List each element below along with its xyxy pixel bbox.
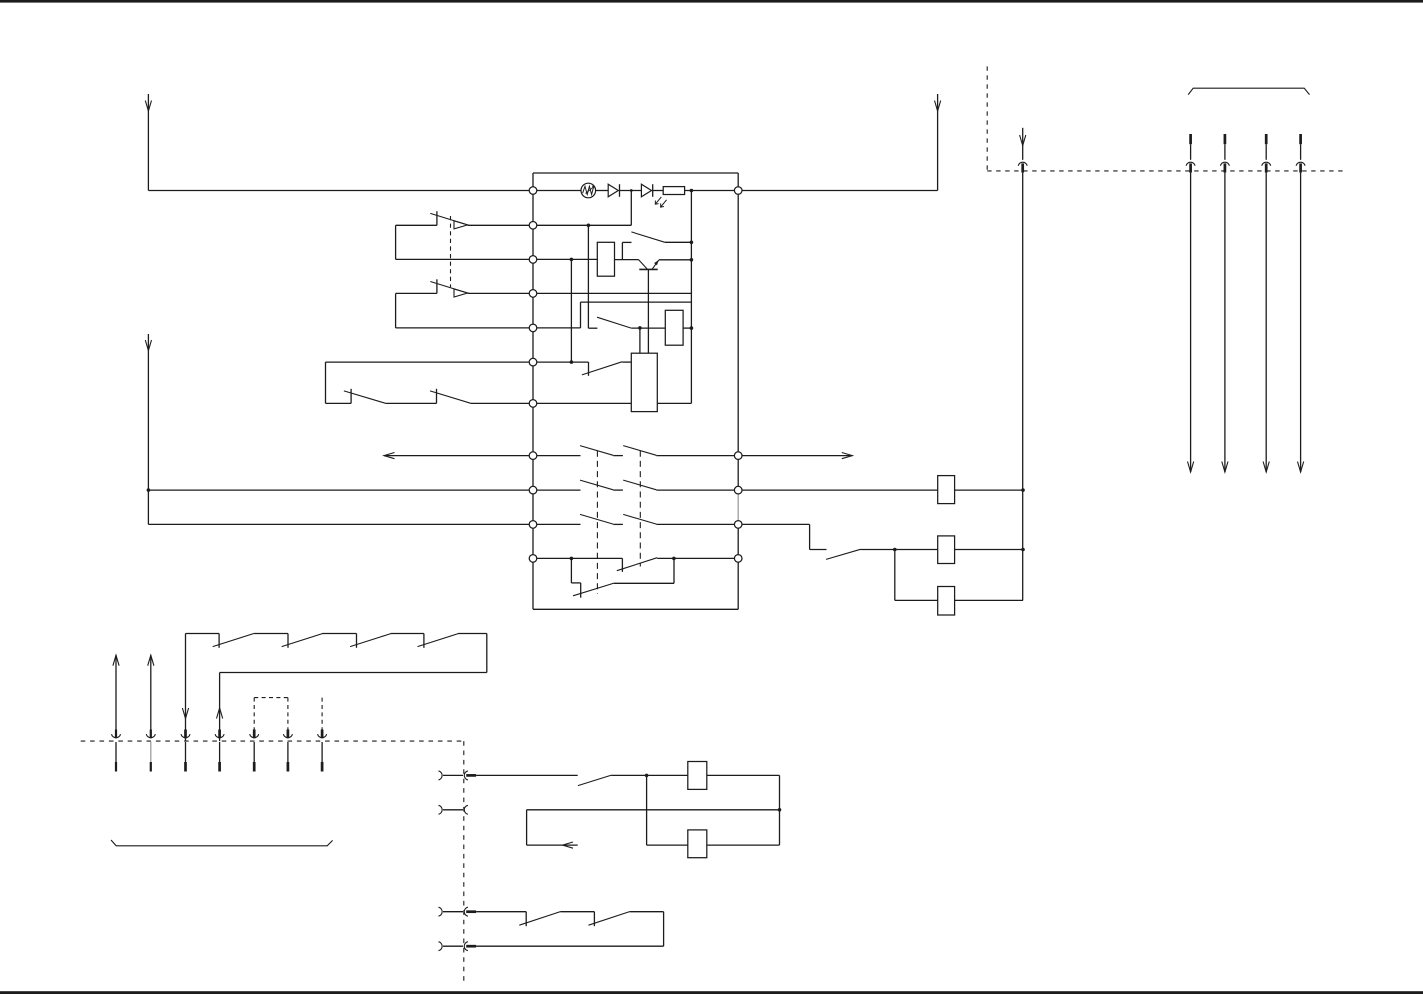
wire row11 a (533, 557, 622, 559)
wire x1023 upper with arrow (1022, 128, 1024, 160)
contact S2 direction triangle (454, 289, 468, 297)
wire row8 mid (613, 455, 623, 457)
wire x691 corner to coil K2 (657, 402, 691, 404)
wire x1023 vertical (1022, 173, 1024, 601)
contact row8-left blade (580, 446, 613, 456)
wire row7 right (533, 402, 631, 404)
wire feed-right horizontal (738, 190, 937, 192)
pin L1 (529, 187, 537, 195)
connector socket arc row775 left (439, 771, 443, 780)
junction node row5-x640 (638, 326, 642, 330)
contact row10-left blade (580, 514, 613, 524)
relay coil K4 (938, 587, 955, 616)
resistor R1 (663, 187, 684, 195)
contact S8 terminal stub (621, 558, 623, 572)
wire row9 left (148, 489, 533, 491)
wire row775 d (707, 774, 780, 776)
wire row5 b (631, 327, 665, 329)
border frame bottom bar (0, 991, 1423, 994)
wire S2 to pin L4 (468, 292, 533, 294)
linkage dashed right gang (639, 451, 641, 567)
transistor Q1 (639, 260, 648, 270)
wire row2 right (533, 224, 631, 226)
junction node row1-x631 (630, 189, 633, 192)
wire S1 to pin L2 (468, 224, 533, 226)
linkage dashed left gang (596, 451, 598, 594)
lamp LA1 (581, 183, 596, 198)
wire row549 a (861, 549, 938, 551)
wire row8 right (656, 455, 738, 457)
wire row810 corner vertical (526, 810, 528, 845)
wire row10 right (656, 523, 738, 525)
wire row810 main (527, 809, 780, 811)
junction node row5-x691 (690, 326, 694, 330)
pin R5 (734, 555, 742, 563)
wire row845 a (647, 844, 688, 846)
contact S8 blade (617, 558, 657, 571)
wire row946 main (476, 945, 663, 947)
wire row1 d (653, 190, 664, 192)
wire x646 vertical (646, 775, 648, 845)
wire row911 c (630, 911, 664, 913)
contact S6 terminal stub (350, 389, 352, 404)
connector socket arc row810 left (439, 805, 443, 814)
contact S6 blade (344, 391, 385, 403)
wire x631 vertical row1-row2 (630, 191, 632, 226)
wire chain left vertical (185, 634, 187, 742)
pin L10 (529, 521, 537, 529)
wire loop B left vertical (395, 293, 397, 328)
connector line LC2 with up arrow (gray tail) (150, 655, 152, 729)
arrow out row8 left (384, 455, 533, 457)
pin L7 (529, 400, 537, 408)
wire row10 right a (738, 523, 809, 525)
wire row9 stub (533, 489, 581, 491)
contact S4 blade (597, 317, 631, 328)
wire feed-right vertical with arrow (937, 94, 939, 191)
junction node row775-x646 (645, 774, 649, 778)
wire row5 left (396, 327, 533, 329)
wire S5 to coil K2 (622, 361, 631, 363)
bracket row5 bypass (580, 302, 582, 328)
connector line RC4 (1299, 134, 1302, 144)
contact S1 wire (396, 224, 437, 226)
wire row9 mid (613, 489, 623, 491)
contact chain-2 blade (282, 634, 323, 647)
wire staircase vertical (809, 524, 811, 549)
pin L9 (529, 486, 537, 494)
junction node x894 (893, 548, 897, 552)
connector line LC4 (218, 730, 221, 739)
contact chain-3 stub (356, 634, 358, 648)
wire S7 to pin L7 (470, 402, 533, 404)
connector socket arc row810 mid (464, 805, 468, 814)
connector socket arc x1023 (1018, 162, 1027, 166)
bracket K1 to contact (621, 242, 623, 259)
pin L6 (529, 358, 537, 366)
wire row810 stub (443, 809, 463, 811)
photo arrows at D2 (655, 197, 661, 204)
contact S9 blade (573, 583, 614, 596)
resistor R2 (665, 310, 683, 345)
wire row9 right b (955, 489, 1023, 491)
wire row911 a (476, 911, 526, 913)
wire chain top segments (186, 633, 220, 635)
relay coil K7 (688, 830, 707, 858)
wire row10 mid (613, 523, 623, 525)
wire row6 left (326, 361, 534, 363)
wire row8 stub (533, 455, 581, 457)
wire row845 tail with arrow (527, 844, 578, 846)
wire row9 right (656, 489, 738, 491)
group brace right bank (1188, 88, 1309, 94)
junction node row11-x571 (570, 557, 574, 561)
contact S7 terminal stub (436, 389, 438, 404)
wire row600 a (895, 599, 938, 601)
relay unit box left edge (532, 173, 534, 609)
pin R4 (734, 521, 742, 529)
connector line RC3 (1265, 134, 1268, 144)
relay coil K3 (938, 536, 955, 564)
contact S13 blade (589, 912, 630, 926)
contact S12 blade (519, 912, 560, 926)
junction node row549-x1023 (1021, 548, 1025, 552)
wire row600 b (955, 599, 1023, 601)
wire bypass vertical c (673, 558, 675, 583)
connector boundary dashed vertical (463, 741, 465, 981)
wire bypass b (614, 582, 674, 584)
relay unit box right edge upper (737, 173, 739, 490)
contact row9-left blade (580, 480, 613, 490)
wire row10 stub (533, 523, 581, 525)
connector line LC5 dashed top (253, 698, 255, 730)
connector pin tick row775 (466, 774, 476, 777)
wire loop C vertical (325, 362, 327, 403)
connector socket arc row946 mid (464, 942, 468, 951)
junction node row11-x674 (672, 557, 676, 561)
relay coil K5 (938, 476, 955, 504)
contact S1 direction triangle (454, 221, 468, 229)
contact chain-3 blade (350, 634, 391, 647)
connector boundary dashed L (986, 66, 988, 170)
wire feed-left2 vertical with arrow (147, 334, 149, 524)
diode D2 (photo) (641, 184, 651, 197)
relay unit box top edge (533, 172, 738, 174)
contact S1 blade (430, 213, 467, 225)
relay coil K6 (688, 762, 707, 790)
contact chain-2 stub (287, 634, 289, 648)
junction node row3-x571 (570, 258, 574, 262)
wire row775 c (612, 774, 688, 776)
wire row3 a (533, 258, 597, 260)
wire row549 b (955, 549, 1023, 551)
junction node row9-x1023 (1021, 488, 1025, 492)
relay unit box right edge gray segment (737, 490, 739, 524)
wire bypass vertical a (570, 558, 572, 583)
wire row4 (533, 292, 691, 294)
wire row911 b (560, 911, 594, 913)
contact S7 blade (430, 391, 470, 403)
pin R3 (734, 486, 742, 494)
contact chain-4 stub (423, 634, 425, 648)
relay coil K1 (597, 242, 614, 276)
contact chain-1 stub (218, 634, 220, 648)
wire row5 a (533, 327, 581, 329)
contact row9-right blade (623, 480, 656, 490)
connector line LC7 dashed top (321, 698, 323, 730)
connector line LC3 (184, 730, 187, 739)
connector line LC6 dashed top (287, 698, 289, 730)
diode D1 (608, 184, 618, 197)
junction node emitter-x691 (690, 258, 694, 262)
wire row845 b (707, 844, 780, 846)
connector pin tick row946 (466, 945, 476, 948)
wire row3 b (base feed) (615, 259, 639, 261)
contact S10 blade (826, 549, 860, 559)
wire loop C bottom a (326, 402, 352, 404)
connector boundary dashed main (81, 740, 464, 742)
wire feed-left horizontal (148, 190, 533, 192)
wire chain right vertical (486, 634, 488, 673)
wire chain bottom-left vertical (219, 673, 221, 742)
junction node row2-x588 (587, 224, 591, 228)
relay unit box right edge lower (737, 524, 739, 609)
wire Q1 emitter to x691 (659, 259, 692, 261)
wire x588 vertical row2-row5 (587, 225, 589, 328)
junction node feed2-row9 (147, 488, 151, 492)
contact S12 stub (525, 912, 527, 927)
wire row946 stub (443, 945, 463, 947)
wire x663 vertical (663, 912, 665, 947)
connector dashed bridge LC5-LC6 (254, 697, 288, 699)
pin L2 (529, 222, 537, 230)
wire chain bottom (220, 672, 487, 674)
wire feed-left vertical with arrow (147, 94, 149, 191)
contact row8-right blade (623, 446, 656, 456)
connector pin tick row911 (466, 910, 476, 913)
wire row9 right (738, 489, 938, 491)
wire row775 b (476, 774, 578, 776)
contact S2 blade (430, 282, 467, 294)
wire row1 e (685, 190, 739, 192)
connector socket arc row911 mid (464, 907, 468, 916)
wire row10 left (148, 523, 533, 525)
wire x691 vertical (690, 191, 692, 404)
wire row3 left (396, 258, 533, 260)
wire x640 vertical to coil K2 (639, 328, 641, 353)
linkage S1-S2 dashed (450, 216, 452, 287)
wire Q1 base vertical (647, 269, 649, 353)
wire loop C bottom b (385, 402, 436, 404)
contact S5 terminal stub (588, 362, 590, 376)
pin L11 (529, 555, 537, 563)
wire row5 c (683, 327, 691, 329)
wire row11 b (657, 557, 738, 559)
contact chain-4 blade (418, 634, 459, 647)
wire row6 a (533, 361, 589, 363)
junction node row6-x571 (570, 360, 574, 364)
group brace left bank (111, 840, 333, 846)
arrow out row8 right (738, 455, 852, 457)
pin L8 (529, 452, 537, 460)
wire row775 a (443, 774, 463, 776)
connector socket arc row911 left (439, 907, 443, 916)
contact S13 stub (593, 912, 595, 927)
wire row1 b (596, 190, 609, 192)
relay coil K2 (631, 353, 657, 411)
wire S3 to x691 (665, 241, 692, 243)
contact S2 wire (396, 292, 437, 294)
contact S9 terminal stub (580, 583, 582, 598)
pin L3 (529, 256, 537, 264)
wire bypass jog (571, 582, 580, 584)
contact S1 terminal stub (436, 211, 438, 225)
wire x779 vertical (779, 775, 781, 845)
contact S3 blade (631, 232, 665, 242)
junction node row1-x691 (690, 189, 694, 193)
pin R2 (734, 452, 742, 460)
contact S5 blade (582, 362, 622, 375)
wire x894 vertical (894, 550, 896, 601)
pin R1 (734, 187, 742, 195)
wire row1 a (533, 190, 581, 192)
connector line LC1 with up arrow (115, 655, 117, 729)
pin L4 (529, 290, 537, 298)
junction node x779-row810 (778, 808, 782, 812)
pin L5 (529, 324, 537, 332)
connector pin tick x1023 (1021, 163, 1024, 172)
contact S11 blade (578, 775, 612, 786)
contact chain-1 blade (213, 634, 254, 647)
wire loop A left vertical (395, 225, 397, 259)
contact S2 terminal stub (436, 279, 438, 293)
relay unit box bottom edge (533, 608, 738, 610)
border frame top bar (0, 0, 1423, 3)
wire row911 stub (443, 911, 463, 913)
connector line RC2 (1224, 134, 1227, 144)
wire x571 vertical row3-row6 (570, 259, 572, 362)
junction node S3-x691 (690, 241, 694, 245)
wire row1 c (620, 190, 642, 192)
contact S4 terminal foot (588, 327, 597, 329)
connector socket arc row946 left (439, 942, 443, 951)
wire staircase b (810, 549, 827, 551)
connector socket arc row775 mid (464, 771, 468, 780)
contact row10-right blade (623, 514, 656, 524)
connector line RC1 (1189, 134, 1192, 144)
